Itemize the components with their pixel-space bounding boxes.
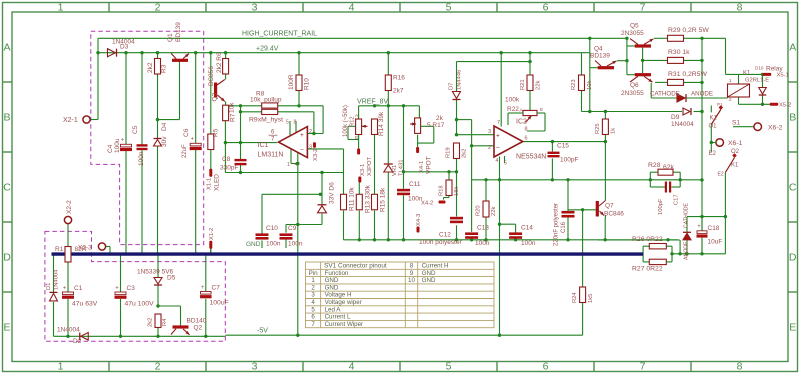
wire sense wire y240: [598, 239, 680, 241]
svg-text:X1-1: X1-1: [207, 178, 213, 190]
svg-text:SV1 Connector pinout: SV1 Connector pinout: [324, 263, 387, 270]
capacitor C4 100u: [121, 144, 132, 147]
connector X1-1 XLED: [209, 169, 212, 177]
svg-text:R26 0R22: R26 0R22: [632, 236, 663, 243]
wire R17 column: [418, 106, 420, 118]
svg-text:XLED: XLED: [214, 174, 221, 191]
svg-text:D9: D9: [671, 114, 680, 121]
connector X3-1 X3POT: [357, 149, 360, 155]
svg-text:1: 1: [58, 360, 64, 372]
svg-text:X2-1: X2-1: [63, 117, 78, 124]
svg-text:C10: C10: [266, 225, 278, 232]
svg-text:E: E: [789, 322, 796, 334]
svg-text:R5: R5: [213, 128, 220, 137]
svg-text:X4-2: X4-2: [421, 201, 433, 207]
svg-text:ANODE: ANODE: [684, 241, 690, 260]
wire D5 column: [157, 254, 159, 277]
svg-text:Q6: Q6: [630, 82, 639, 89]
svg-text:5: 5: [286, 120, 289, 126]
svg-text:100n: 100n: [475, 240, 490, 247]
wire Q5 Q6 emitter column: [642, 48, 644, 74]
svg-text:3: 3: [488, 129, 491, 135]
GND power bus thick: [52, 252, 644, 255]
wire IC1 top pin stubs: [289, 121, 291, 136]
wire Q5 Q6 base column: [626, 38, 628, 74]
potentiometer R22: [523, 110, 537, 115]
resistor R14 39k: [372, 119, 378, 135]
wire top right elbow to relay: [702, 37, 726, 39]
svg-text:2k2: 2k2: [462, 149, 468, 158]
transistor Q7 BC846: [596, 201, 599, 217]
svg-text:X5-1: X5-1: [777, 73, 789, 79]
svg-text:X5-2: X5-2: [779, 103, 791, 109]
wire R8 left node: [225, 105, 261, 107]
svg-text:220nF polyester: 220nF polyester: [554, 203, 560, 246]
svg-text:GND: GND: [422, 277, 436, 284]
relay contact K1 O1 stub: [710, 106, 712, 113]
svg-text:33V D6: 33V D6: [329, 182, 336, 204]
wire C11 column: [403, 106, 405, 189]
transistor Q3 BC856: [214, 83, 217, 98]
svg-text:VR1: VR1: [392, 165, 398, 176]
wire IC2 minus column: [471, 120, 473, 232]
svg-text:7: 7: [640, 2, 646, 14]
wire IC1 pin4 to -5V column: [290, 150, 292, 164]
svg-text:BD140: BD140: [187, 318, 207, 325]
svg-text:D1: D1: [46, 283, 52, 290]
svg-text:30v: 30v: [161, 136, 168, 147]
relay contact K1 O2: [725, 158, 734, 173]
resistor R19 2k2: [454, 143, 460, 159]
wire output node horizontal y254: [672, 253, 725, 255]
svg-text:1k5: 1k5: [588, 294, 594, 303]
wire C8 column: [240, 106, 242, 160]
svg-text:2: 2: [488, 145, 491, 151]
svg-text:18k: 18k: [454, 187, 460, 196]
svg-text:5: 5: [446, 2, 452, 14]
resistor R4 2k2: [155, 314, 161, 328]
svg-text:Function: Function: [325, 270, 349, 277]
connector circle X2-2: [64, 216, 71, 223]
svg-text:X4-3: X4-3: [416, 214, 422, 226]
svg-text:7: 7: [311, 321, 315, 328]
wire R29 horizontal: [654, 37, 668, 39]
diode D2 1N4004: [81, 333, 89, 341]
svg-text:3: 3: [252, 360, 258, 372]
wire relay bottom horizontal: [739, 103, 771, 105]
svg-text:K1: K1: [743, 71, 751, 77]
svg-text:R20: R20: [476, 205, 482, 216]
svg-text:2: 2: [729, 97, 732, 102]
svg-text:10uF: 10uF: [708, 239, 723, 246]
connector X4-2 tick: [439, 201, 446, 204]
svg-text:BC846: BC846: [604, 211, 624, 218]
wire R16 VR1 column: [387, 53, 389, 75]
svg-text:R1: R1: [55, 246, 64, 253]
wire Q2 base: [158, 305, 181, 307]
capacitor C17 100pF: [665, 182, 667, 193]
svg-text:C4: C4: [107, 144, 114, 153]
wire R19 R18 C12 D7 column: [456, 62, 458, 92]
wire VREF_8V horizontal: [359, 105, 420, 107]
wire R7 bottom to comparator output: [224, 120, 226, 142]
svg-text:4: 4: [496, 158, 499, 164]
diode D9 1N4004: [683, 108, 690, 115]
wire IC2 pin5 stub: [504, 156, 506, 163]
svg-text:10k: 10k: [229, 102, 236, 113]
svg-text:E: E: [540, 107, 543, 113]
svg-text:2k7: 2k7: [393, 88, 404, 95]
svg-text:S1: S1: [732, 120, 740, 127]
table SV1 connector pinout: [306, 262, 495, 328]
svg-text:10k: 10k: [587, 81, 593, 90]
svg-text:4: 4: [311, 299, 315, 306]
svg-text:B: B: [789, 112, 796, 124]
svg-text:100n: 100n: [138, 151, 145, 166]
svg-text:100k (~50k): 100k (~50k): [343, 105, 349, 137]
resistor R28 62k: [658, 169, 673, 175]
svg-text:+: +: [115, 285, 119, 291]
svg-text:D: D: [3, 252, 11, 264]
svg-text:47u 63V: 47u 63V: [72, 301, 98, 308]
svg-text:100k: 100k: [505, 97, 520, 104]
svg-text:GND: GND: [246, 241, 261, 248]
resistor R16 2k7: [385, 75, 391, 91]
diode D1 1N4004: [50, 293, 58, 301]
wire C7 column: [205, 254, 207, 292]
capacitor C7 100uF: [201, 292, 212, 295]
svg-text:+: +: [300, 132, 304, 139]
svg-text:47u 100V: 47u 100V: [125, 301, 155, 308]
svg-text:+29.4V: +29.4V: [256, 46, 279, 53]
svg-text:D10: D10: [755, 66, 764, 71]
svg-text:Q7: Q7: [605, 203, 614, 210]
svg-text:+: +: [496, 133, 500, 140]
svg-text:NE5534N: NE5534N: [516, 154, 546, 161]
wire stub X2-1: [90, 119, 98, 121]
svg-text:330pF: 330pF: [220, 165, 238, 172]
connector X4-3 tick: [417, 227, 420, 233]
resistor R31 0.2R 5W: [668, 79, 684, 85]
svg-text:100n: 100n: [266, 241, 281, 248]
capacitor C3 47u 100V: [115, 292, 126, 295]
svg-text:Q4: Q4: [594, 46, 603, 53]
zener diode D4 30v: [154, 140, 162, 147]
potentiometer R17 2k: [415, 118, 421, 133]
wire R15 R14 column: [374, 134, 376, 194]
wire R18 hang: [448, 172, 450, 180]
svg-text:R13 330k: R13 330k: [365, 184, 372, 213]
svg-text:E: E: [3, 322, 10, 334]
svg-text:−: −: [300, 147, 304, 154]
svg-text:100pF: 100pF: [658, 198, 664, 215]
svg-text:ANODE: ANODE: [691, 91, 713, 98]
svg-text:P1: P1: [717, 102, 723, 107]
resistor R6 2k2: [223, 59, 229, 75]
svg-text:+: +: [697, 224, 701, 230]
svg-text:G2RL1-E: G2RL1-E: [745, 78, 769, 84]
svg-text:4: 4: [349, 360, 355, 372]
resistor R30 1k: [668, 57, 684, 63]
resistor R21 22k: [527, 75, 533, 91]
wire R20 column: [485, 180, 487, 201]
svg-text:-5V: -5V: [257, 328, 268, 335]
wire Q7 collector column: [604, 142, 606, 201]
wire Q6 emitter drop: [650, 83, 652, 98]
wire C3 column: [120, 254, 122, 292]
wire relay coil stubs: [738, 74, 740, 84]
svg-text:5: 5: [446, 360, 452, 372]
svg-text:A: A: [789, 42, 796, 54]
dashed highlight box power input section: [91, 31, 204, 244]
svg-text:R15 18k: R15 18k: [380, 187, 387, 212]
svg-text:1N4446: 1N4446: [457, 70, 463, 90]
svg-text:−: −: [496, 145, 500, 152]
svg-text:R21: R21: [520, 79, 526, 90]
wire R9 left node: [241, 111, 262, 113]
svg-text:R29 0,2R 5W: R29 0,2R 5W: [668, 27, 709, 34]
svg-text:C13: C13: [477, 225, 489, 232]
svg-text:100n: 100n: [288, 241, 303, 248]
resistor R10 100R: [296, 75, 302, 91]
svg-text:C3: C3: [127, 285, 136, 292]
svg-text:X3-1: X3-1: [360, 164, 366, 176]
svg-text:R19: R19: [446, 147, 452, 158]
zener diode D6 33V: [318, 206, 327, 213]
connector X3-2 tick: [313, 142, 316, 148]
wire R1 C1 column: [67, 262, 69, 292]
svg-text:R3: R3: [161, 64, 168, 73]
resistor R9 hysteresis: [262, 109, 278, 114]
svg-text:2: 2: [155, 360, 161, 372]
svg-text:R14 39k: R14 39k: [378, 111, 385, 136]
svg-text:C9: C9: [288, 225, 297, 232]
wire C4 column: [125, 53, 127, 145]
svg-text:7: 7: [497, 120, 500, 126]
zener reference VR1: [384, 165, 393, 172]
svg-text:Voltage wiper: Voltage wiper: [325, 299, 362, 306]
relay contact K1 O1: [711, 110, 721, 125]
svg-text:B: B: [3, 112, 10, 124]
svg-text:10k_pullup: 10k_pullup: [250, 97, 282, 104]
resistor R8 10k_pullup: [262, 103, 278, 108]
svg-text:4: 4: [349, 2, 355, 14]
wire C18 node horizontal: [687, 216, 725, 218]
capacitor C13 100n: [465, 232, 478, 235]
svg-text:1: 1: [729, 78, 732, 83]
wire C5 column: [141, 53, 143, 145]
svg-text:C11: C11: [409, 181, 421, 188]
svg-text:VREF_8V: VREF_8V: [357, 99, 388, 106]
svg-text:100n: 100n: [521, 240, 536, 247]
svg-text:CATHODE: CATHODE: [684, 202, 690, 228]
diode D7 1N4446: [453, 92, 461, 99]
svg-text:Led A: Led A: [325, 306, 342, 313]
connector X4-1 VPOT: [416, 147, 419, 153]
svg-text:Current Wiper: Current Wiper: [325, 321, 364, 328]
connector X6-1: [716, 139, 724, 147]
svg-text:6: 6: [543, 360, 549, 372]
svg-text:IC1: IC1: [258, 142, 269, 149]
svg-text:D7: D7: [449, 83, 455, 90]
relay K1 G2RL1 coil: [728, 84, 750, 97]
wire X1-2 stub: [210, 248, 212, 254]
svg-text:2: 2: [155, 2, 161, 14]
switch S1 and connector X6-2: [733, 126, 754, 128]
wire R4 gap: [157, 313, 159, 316]
svg-text:8: 8: [737, 2, 743, 14]
svg-text:BD139: BD139: [590, 53, 610, 60]
svg-text:X1-2: X1-2: [209, 228, 215, 240]
svg-text:Current L: Current L: [325, 314, 351, 321]
svg-text:A: A: [3, 42, 10, 54]
svg-text:1: 1: [287, 162, 290, 168]
wire HIGH_CURRENT_RAIL horizontal: [98, 37, 627, 39]
svg-text:6: 6: [525, 136, 528, 142]
wire R5 X1 column: [210, 53, 212, 134]
wire IC2 minus input: [472, 145, 494, 147]
resistor R20 22k: [483, 201, 489, 217]
svg-text:62k: 62k: [663, 164, 675, 171]
svg-text:C6: C6: [183, 128, 190, 137]
svg-text:R18: R18: [439, 185, 445, 196]
wire R10 column: [298, 53, 300, 75]
svg-text:8: 8: [737, 360, 743, 372]
wire D10 stubs: [762, 74, 764, 87]
svg-text:C7: C7: [212, 285, 221, 292]
capacitor C9 100n: [280, 233, 293, 236]
svg-text:E: E: [355, 135, 358, 141]
capacitor C5 100n: [137, 144, 148, 146]
wire Q1 base column: [179, 62, 181, 120]
wire D6 column: [321, 173, 323, 205]
svg-text:R16: R16: [393, 75, 405, 82]
svg-text:C8: C8: [222, 156, 231, 163]
svg-text:1N4004: 1N4004: [54, 269, 60, 290]
opamp IC2 NE5534N: [494, 126, 523, 157]
svg-text:8: 8: [410, 263, 414, 270]
resistor R1 82R: [65, 247, 71, 263]
svg-text:2N3055: 2N3055: [621, 30, 644, 37]
capacitor C15 100pF: [548, 152, 560, 154]
resistor R3 2k2: [155, 59, 161, 75]
svg-text:Q3: Q3: [212, 92, 219, 101]
wire bottom -5V in box: [54, 335, 226, 337]
svg-text:X3-2: X3-2: [313, 149, 319, 161]
capacitor C16 220nF polyester: [562, 211, 575, 214]
wire R24 column: [582, 210, 584, 287]
wire C18 column: [701, 217, 703, 231]
svg-text:1: 1: [311, 277, 315, 284]
svg-text:D4: D4: [161, 122, 168, 131]
wire IC1 minus input: [307, 148, 343, 150]
wire R12 column: [358, 106, 360, 119]
svg-text:1N4004: 1N4004: [671, 121, 694, 128]
shunt resistor R26 0R22: [649, 244, 666, 249]
svg-text:R28: R28: [648, 162, 661, 169]
svg-text:C18: C18: [708, 225, 720, 232]
wire +29.4V rail horizontal: [98, 52, 590, 54]
capacitor C11 100n: [397, 189, 410, 192]
transistor Q2 BD140: [173, 325, 189, 328]
wire C14 elbow: [500, 223, 516, 225]
svg-text:C12: C12: [439, 232, 451, 239]
transistor Q1 BD139: [172, 59, 188, 62]
svg-text:100n polyester: 100n polyester: [419, 239, 462, 246]
svg-text:100uF: 100uF: [210, 300, 229, 307]
svg-text:2k: 2k: [436, 115, 444, 122]
svg-text:2k2 R6: 2k2 R6: [216, 52, 223, 73]
svg-text:R23: R23: [571, 79, 577, 90]
resistor R23 10k: [579, 75, 585, 91]
diode LED D8 anode cathode: [683, 233, 691, 240]
svg-text:Relay: Relay: [766, 66, 783, 73]
svg-text:8: 8: [294, 120, 297, 126]
svg-text:+: +: [121, 138, 125, 144]
wire X2-3 stub: [106, 246, 111, 248]
potentiometer R12 100k: [356, 119, 362, 135]
wire C15 column: [551, 142, 553, 152]
svg-text:+: +: [191, 137, 195, 143]
wire relay top horizontal: [726, 73, 764, 75]
capacitor C10 100n: [256, 233, 269, 236]
wire C10 C9 GND node: [262, 193, 320, 195]
svg-text:R25: R25: [595, 123, 601, 134]
svg-text:22uF: 22uF: [182, 144, 188, 158]
resistor R13 330k: [356, 194, 362, 210]
node dots +29.4V rail: [124, 51, 127, 54]
wire LED anode horizontal: [651, 97, 678, 99]
svg-text:R9xM_hyst: R9xM_hyst: [249, 117, 283, 124]
svg-text:E2: E2: [709, 151, 717, 157]
wire R30 horizontal: [643, 59, 668, 61]
connector tick X5-2: [770, 103, 779, 106]
svg-text:3: 3: [311, 292, 315, 299]
wire R25 column: [604, 112, 606, 120]
capacitor C6 22uF: [190, 143, 201, 146]
svg-text:1k: 1k: [611, 128, 617, 134]
svg-text:VPOT: VPOT: [426, 156, 433, 174]
svg-text:Q5: Q5: [630, 23, 639, 30]
wire hyst top horizontal: [457, 61, 531, 63]
svg-text:R24: R24: [572, 292, 578, 303]
wire R3 D4 column: [157, 53, 159, 59]
wire GND bus lower horizontal: [344, 239, 679, 241]
svg-text:Current H: Current H: [422, 263, 449, 270]
svg-text:6: 6: [543, 2, 549, 14]
svg-text:D5: D5: [167, 275, 176, 282]
svg-text:C1: C1: [74, 285, 83, 292]
svg-text:X2-2: X2-2: [66, 200, 73, 214]
resistor R15 18k: [372, 194, 378, 210]
wire IC2 pin4 to -5V column: [499, 157, 501, 336]
wire R8 right to IC1 plus input: [278, 105, 323, 107]
svg-text:4: 4: [295, 162, 298, 168]
svg-text:10: 10: [408, 277, 415, 284]
svg-text:C15: C15: [557, 143, 569, 150]
svg-text:2k2: 2k2: [147, 62, 154, 73]
svg-text:3: 3: [252, 2, 258, 14]
resistor R7 10k: [223, 105, 229, 121]
svg-text:CATHODE: CATHODE: [650, 91, 680, 98]
wire R13 column: [358, 182, 360, 194]
transistor Q6 2N3055: [635, 73, 651, 76]
svg-text:C: C: [789, 182, 797, 194]
wire IC1 output horizontal: [225, 142, 277, 144]
capacitor C1 47u 63V: [63, 292, 74, 295]
svg-text:Q1: Q1: [167, 33, 174, 42]
wire IC1 plus input: [307, 133, 323, 135]
